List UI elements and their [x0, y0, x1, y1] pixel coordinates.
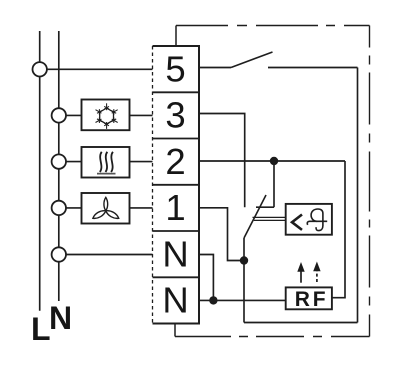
thermostat label: less-than sign — [292, 215, 302, 230]
cooling snowflake icon — [94, 103, 119, 129]
RF emission arrow right (dashed shaft) — [313, 262, 320, 283]
wire right inner rail down to RF box — [332, 161, 345, 298]
wire right outer vertical — [357, 68, 359, 323]
wire terminal 5 to switch — [199, 67, 231, 69]
wire terminal N1 down to N2 wire — [199, 255, 213, 301]
enclosure dash-dot border bottom — [175, 336, 370, 338]
wire L rail — [39, 31, 41, 311]
wire N-node to terminal N1 — [59, 254, 153, 256]
thermostat label: script theta — [307, 209, 327, 231]
junction dot on terminal-2 wire — [270, 157, 278, 165]
fan icon — [92, 197, 120, 220]
cooling box — [82, 100, 130, 131]
junction dot on N2 wire — [209, 296, 217, 304]
enclosure dash-dot border top — [176, 25, 370, 27]
wire bottom tab from terminal block to enclosure border — [174, 324, 176, 337]
RF emission arrow left — [297, 262, 304, 283]
wire terminal 1 to pivot junction — [199, 208, 244, 261]
svg-text:N: N — [162, 233, 188, 274]
terminal divider 1/N — [153, 230, 200, 232]
wire top tab from terminal block to enclosure border — [175, 26, 177, 47]
wire terminal 2 to right inner rail — [199, 160, 345, 162]
terminal divider 3/2 — [153, 138, 200, 140]
terminal divider 2/1 — [153, 184, 200, 186]
svg-text:1: 1 — [165, 187, 185, 228]
svg-text:N: N — [162, 280, 188, 321]
svg-text:5: 5 — [165, 49, 185, 90]
wire L-node to terminal 5 — [40, 68, 153, 70]
fan box — [82, 193, 130, 224]
terminal block outline — [153, 46, 200, 324]
svg-text:2: 2 — [165, 141, 185, 182]
junction dot at pivot feed — [240, 256, 248, 264]
mechanical link to thermostat (double line) — [253, 216, 286, 218]
wire junction down to changeover right contact — [273, 161, 275, 207]
wire N-node to heating box — [59, 161, 82, 163]
wire terminal N2 to RF box — [199, 299, 286, 301]
svg-text:L: L — [31, 311, 51, 347]
terminal block left dashed border — [152, 46, 154, 324]
wire terminal 3 to changeover left contact — [199, 114, 245, 208]
changeover switch blade — [244, 195, 266, 238]
wire N-node to fan box — [59, 207, 82, 209]
thermostat box U1 — [286, 204, 332, 235]
svg-text:3: 3 — [165, 95, 185, 136]
wire fan box to terminal 1 — [130, 207, 153, 209]
wire changeover pivot vertical — [243, 238, 245, 323]
node on L rail — [33, 62, 47, 76]
wire N rail — [58, 31, 60, 301]
switch blade (mains switch, open) — [231, 52, 273, 68]
terminal divider 5/3 — [153, 91, 200, 93]
node on N rail row 2 — [52, 154, 66, 168]
node on N rail row N — [52, 247, 66, 261]
node on N rail row 1 — [52, 201, 66, 215]
heating box — [82, 147, 130, 178]
RF box — [286, 287, 332, 309]
wire switch fixed side to right rail — [268, 67, 358, 69]
enclosure dash-dot border right — [369, 26, 371, 337]
wire bottom return — [244, 322, 358, 324]
changeover right contact bar — [256, 206, 274, 208]
svg-text:RF: RF — [295, 288, 329, 311]
wire cooling box to terminal 3 — [130, 114, 153, 116]
wire N-node to cooling box — [59, 114, 82, 116]
heating waves icon — [97, 152, 116, 174]
svg-text:N: N — [49, 300, 72, 336]
terminal divider N/N — [153, 276, 200, 278]
node on N rail row 3 — [52, 108, 66, 122]
wire heating box to terminal 2 — [130, 161, 153, 163]
